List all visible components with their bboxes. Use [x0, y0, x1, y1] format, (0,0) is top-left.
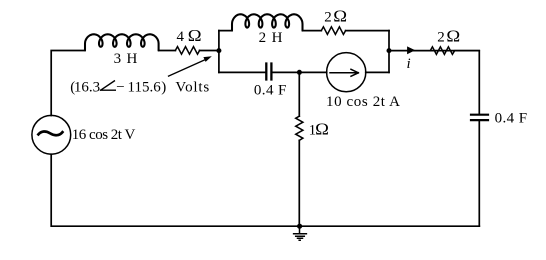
svg-text:2: 2 — [324, 9, 332, 25]
svg-text:Volts: Volts — [175, 79, 210, 95]
svg-text:Ω: Ω — [333, 6, 347, 25]
svg-text:): ) — [161, 79, 166, 95]
svg-text:16 cos 2t V: 16 cos 2t V — [72, 127, 136, 143]
svg-text:16.3: 16.3 — [74, 79, 100, 95]
svg-text:0.4 F: 0.4 F — [495, 110, 528, 126]
svg-text:Ω: Ω — [446, 26, 460, 45]
svg-text:2 H: 2 H — [259, 30, 284, 46]
svg-text:4: 4 — [177, 29, 185, 45]
svg-text:10 cos 2t A: 10 cos 2t A — [326, 94, 401, 110]
svg-text:−: − — [116, 79, 124, 95]
svg-text:Ω: Ω — [188, 26, 202, 45]
svg-text:0.4 F: 0.4 F — [254, 82, 287, 98]
svg-text:3 H: 3 H — [114, 51, 138, 67]
svg-text:Ω: Ω — [315, 119, 329, 138]
svg-text:i: i — [407, 56, 411, 72]
svg-text:115.6: 115.6 — [128, 79, 162, 95]
svg-text:2: 2 — [437, 29, 445, 45]
